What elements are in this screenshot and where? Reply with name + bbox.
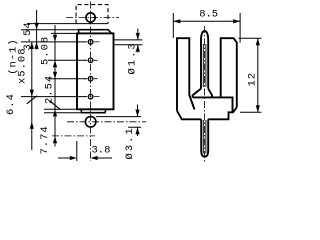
- arrow 8.5 left: [173, 19, 180, 23]
- mounting hole (big circle): [85, 117, 96, 128]
- side view right wall: [221, 38, 237, 112]
- svg-text:3.8: 3.8: [92, 145, 111, 157]
- dim line 5.08/2.54/7.74: [54, 25, 56, 147]
- dim Ø3.1 line: [137, 105, 139, 137]
- front view bottom lip: [81, 109, 106, 112]
- hole H1 crosshair: [84, 41, 100, 43]
- dim 3.8 line right: [98, 157, 113, 159]
- pin inner lines: [203, 120, 206, 154]
- vertical centerline front view: [90, 2, 92, 162]
- extension line body top: [51, 32, 77, 34]
- arrow 3.8 left: [70, 156, 77, 160]
- hole H2: [88, 58, 93, 63]
- dim 8.5 line: [173, 20, 240, 22]
- dim Ø1.3 extension lines: [114, 40, 143, 45]
- phantom mating connector (dashed square): [76, 5, 108, 24]
- arrow d3.1 bottom: [135, 127, 139, 134]
- arrow d3.1 top: [135, 110, 139, 117]
- arrow 12 top: [256, 38, 260, 45]
- blade flare left: [193, 89, 201, 98]
- extension line body bottom: [44, 108, 77, 110]
- arrow 12 bottom: [256, 105, 260, 112]
- svg-text:Ø3.1: Ø3.1: [124, 126, 136, 159]
- hole H3 crosshair: [84, 78, 98, 80]
- svg-text:3.54: 3.54: [22, 21, 34, 50]
- horizontal centerline through mounting hole: [67, 121, 146, 123]
- svg-text:6.4: 6.4: [5, 93, 17, 115]
- arrow pitch bottom: [30, 90, 34, 97]
- blade flare right: [208, 89, 212, 98]
- dim Ø1.3 line: [137, 29, 139, 53]
- arrow 5.08 top: [53, 35, 57, 42]
- arrow pitch top: [30, 42, 34, 49]
- hole H4: [88, 94, 93, 99]
- extension line phantom bottom: [27, 23, 108, 25]
- arrow 3.54 bottom: [35, 42, 39, 49]
- dim 12 line: [257, 38, 259, 112]
- dim line 3.54: [36, 10, 38, 50]
- arrow 6.4 bottom: [30, 122, 34, 129]
- hole H4 crosshair: [84, 96, 100, 98]
- arrow 7.74 top: [53, 109, 57, 116]
- svg-text:5.08: 5.08: [39, 36, 51, 65]
- dim 8.5 extension lines: [173, 13, 240, 43]
- svg-text:2.54: 2.54: [43, 75, 55, 104]
- svg-text:8.5: 8.5: [199, 9, 218, 21]
- arrow 3.8 right: [91, 156, 98, 160]
- side view blade: [201, 31, 208, 89]
- arrow d1.3 top: [136, 33, 140, 40]
- arrow 7.74 bottom: [53, 136, 57, 143]
- horizontal centerline through phantom circle: [66, 17, 119, 19]
- dim 12 extension lines: [239, 38, 262, 112]
- blade inner lines: [203, 44, 206, 87]
- side view bottom slab: [177, 107, 237, 119]
- arrow 5.08 bottom: [53, 60, 57, 67]
- slash terminator S2: [27, 96, 37, 104]
- dim line total pitch: [31, 42, 33, 150]
- front view top lip: [79, 30, 112, 34]
- pin centerline: [204, 26, 206, 162]
- dim Ø3.1 extension lines: [96, 117, 141, 128]
- side view left wall: [177, 38, 195, 111]
- extension line lip top: [21, 29, 78, 31]
- arrow 3.54 top: [35, 23, 39, 30]
- arrow 8.5 right: [233, 19, 240, 23]
- arrow d1.3 bottom: [136, 45, 140, 52]
- extension line hole2: [48, 59, 86, 61]
- svg-text:Ø1.3: Ø1.3: [127, 41, 139, 74]
- dim 3.8 line left: [58, 157, 70, 159]
- svg-text:x5.08: x5.08: [17, 47, 29, 84]
- arrow hole3 down: [53, 72, 57, 79]
- front view body outline: [77, 33, 114, 109]
- extension line hole3: [48, 78, 86, 80]
- hole H2 crosshair: [84, 59, 98, 61]
- extension line lip bottom: [44, 112, 81, 114]
- solder pin: [201, 119, 208, 156]
- extension line hole4: [21, 96, 86, 98]
- phantom circle: [86, 13, 95, 22]
- extension line hole1: [21, 41, 86, 43]
- mesa base line: [193, 96, 221, 98]
- svg-text:7.74: 7.74: [39, 125, 51, 154]
- svg-text:12: 12: [247, 72, 259, 87]
- dashed reference line pin tip level: [52, 135, 95, 137]
- slash terminator S1: [50, 101, 61, 110]
- hole H1: [88, 40, 93, 45]
- dim 3.8 extension line: [76, 141, 78, 161]
- hole H3: [88, 76, 93, 81]
